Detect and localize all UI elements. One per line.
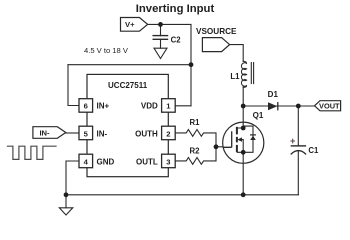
svg-text:Inverting Input: Inverting Input: [136, 3, 215, 15]
svg-text:OUTH: OUTH: [135, 130, 158, 139]
svg-text:D1: D1: [268, 90, 279, 99]
svg-text:6: 6: [84, 102, 88, 111]
svg-text:OUTL: OUTL: [136, 158, 158, 167]
svg-text:3: 3: [166, 158, 170, 167]
svg-text:VDD: VDD: [141, 102, 158, 111]
svg-text:VSOURCE: VSOURCE: [196, 27, 237, 36]
svg-text:C1: C1: [308, 146, 319, 155]
svg-text:R2: R2: [190, 146, 201, 155]
svg-text:V+: V+: [125, 20, 135, 29]
svg-text:4.5 V to 18 V: 4.5 V to 18 V: [84, 46, 129, 55]
svg-text:C2: C2: [171, 36, 182, 45]
svg-text:Q1: Q1: [253, 111, 264, 120]
svg-text:R1: R1: [190, 118, 201, 127]
svg-text:2: 2: [166, 130, 170, 139]
svg-text:IN-: IN-: [97, 130, 108, 139]
svg-text:GND: GND: [97, 158, 115, 167]
svg-text:UCC27511: UCC27511: [108, 81, 148, 90]
svg-text:IN+: IN+: [97, 102, 110, 111]
svg-text:L1: L1: [230, 72, 240, 81]
svg-text:VOUT: VOUT: [319, 102, 340, 111]
svg-text:IN-: IN-: [39, 128, 50, 137]
